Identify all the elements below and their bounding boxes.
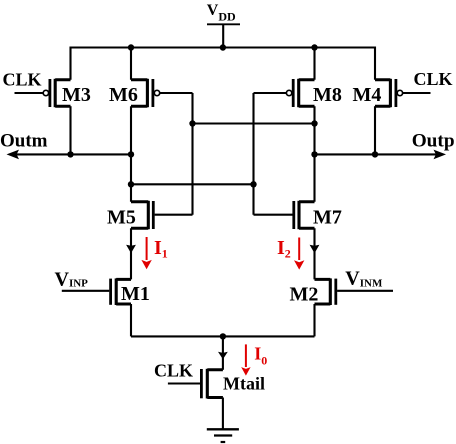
svg-text:M8: M8 — [313, 84, 342, 106]
arrowhead Outm — [7, 150, 20, 160]
junction dot Outp M4 — [372, 151, 378, 157]
transistor M4 — [375, 79, 403, 107]
svg-text:CLK: CLK — [414, 69, 453, 89]
wire CLK lead bottom — [168, 382, 200, 384]
svg-text:M6: M6 — [109, 84, 138, 106]
junction dot rail right — [311, 44, 317, 50]
wire cross-couple lower — [131, 183, 254, 185]
transistor M2 — [315, 278, 394, 305]
junction dot cross upper right — [311, 120, 317, 126]
current arrow I1 — [141, 237, 151, 269]
transistor M7 — [254, 201, 315, 229]
svg-text:CLK: CLK — [154, 360, 193, 380]
junction dot cross lower left — [128, 181, 134, 187]
wire gate column M6/M5 — [191, 93, 193, 215]
wire CLK lead left — [15, 92, 44, 94]
junction dot tail — [220, 333, 226, 339]
wire Outp — [315, 153, 438, 155]
transistor Mtail — [201, 369, 223, 399]
svg-text:M7: M7 — [313, 207, 342, 229]
wire top rail — [71, 48, 376, 80]
current arrow I0 — [241, 344, 250, 375]
junction dot VDD rail — [220, 44, 226, 50]
svg-text:M3: M3 — [62, 84, 91, 106]
svg-text:Outp: Outp — [412, 130, 455, 151]
wire cross-couple upper — [193, 122, 315, 124]
junction dot rail left — [128, 44, 134, 50]
svg-text:M2: M2 — [290, 283, 319, 305]
wire tail node — [131, 335, 315, 337]
wire Mtail source to ground — [222, 398, 224, 430]
svg-text:M4: M4 — [353, 84, 382, 106]
wire tail stub — [222, 336, 224, 369]
wire right node column — [313, 48, 315, 337]
power VDD supply — [207, 24, 240, 47]
wire left node column — [130, 48, 132, 337]
transistor M5 — [131, 201, 193, 229]
wire M3 drain to Outm — [69, 106, 71, 154]
svg-text:Mtail: Mtail — [223, 374, 265, 394]
wire M4 drain to Outp — [374, 106, 376, 154]
arrowhead right branch current — [310, 245, 320, 254]
junction dot Outm node — [128, 151, 134, 157]
svg-text:I0: I0 — [254, 343, 267, 367]
wire M8 gate lead — [254, 92, 287, 94]
ground — [207, 429, 239, 442]
wire CLK lead right — [403, 92, 431, 94]
svg-text:VINM: VINM — [345, 268, 383, 290]
transistor M6 — [131, 79, 160, 107]
wire M6 gate lead — [160, 92, 193, 94]
current arrow I2 — [294, 238, 304, 270]
svg-text:VINP: VINP — [55, 269, 89, 291]
svg-text:CLK: CLK — [3, 69, 42, 89]
arrowhead left branch current — [126, 245, 136, 254]
svg-text:M5: M5 — [107, 207, 136, 229]
junction dot cross lower right — [250, 181, 256, 187]
svg-text:I1: I1 — [154, 237, 168, 261]
junction dot Outp node — [311, 151, 317, 157]
transistor M8 — [286, 79, 314, 107]
svg-text:I2: I2 — [277, 237, 291, 261]
svg-text:Outm: Outm — [0, 131, 48, 152]
junction dot Outm M3 — [67, 151, 73, 157]
svg-text:VDD: VDD — [207, 2, 236, 23]
arrowhead Outp — [434, 150, 447, 160]
transistor M1 — [62, 278, 131, 305]
wire Outm — [16, 153, 131, 155]
arrowhead tail current — [218, 352, 228, 359]
junction dot cross upper left — [189, 120, 195, 126]
transistor M3 — [43, 79, 70, 107]
wire gate column M8/M7 — [252, 93, 254, 215]
svg-text:M1: M1 — [121, 283, 150, 305]
